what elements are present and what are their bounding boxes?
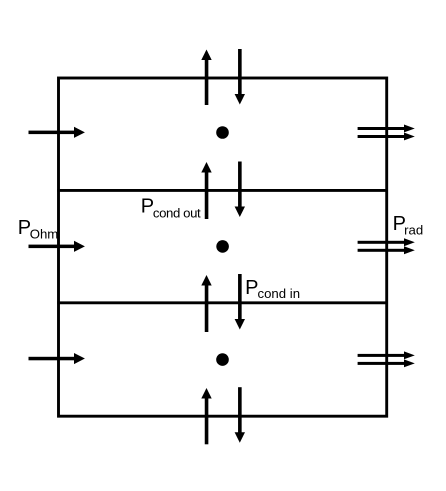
svg-text:cond in: cond in xyxy=(258,286,301,301)
node dot shell 1 xyxy=(216,126,229,139)
label P_cond out xyxy=(141,196,201,221)
arrow P_Ohm input row 2 xyxy=(29,241,85,252)
svg-text:cond out: cond out xyxy=(153,205,201,220)
divider line 1 (shell boundary upper) xyxy=(57,189,388,192)
divider line 2 (shell boundary lower) xyxy=(57,301,388,304)
node dot shell 3 xyxy=(216,353,229,366)
outer box (plasma volume) xyxy=(59,78,387,416)
arrow P_Ohm input row 3 xyxy=(29,353,85,364)
double arrow P_rad output row 1 xyxy=(358,125,415,141)
down arrow crossing top edge xyxy=(235,49,245,105)
label P_Ohm xyxy=(18,217,58,241)
svg-text:Ohm: Ohm xyxy=(30,226,59,241)
svg-text:rad: rad xyxy=(404,223,423,238)
svg-text:P: P xyxy=(245,277,258,299)
down arrow crossing divider 1 xyxy=(235,162,245,218)
label P_cond in xyxy=(245,277,300,301)
node dot shell 2 xyxy=(216,240,229,253)
up arrow crossing divider 2 xyxy=(201,275,211,332)
double arrow P_rad output row 2 xyxy=(358,238,415,254)
up arrow crossing top edge xyxy=(201,50,211,106)
label P_rad xyxy=(393,213,424,238)
up arrow crossing divider 1 (P_cond out) xyxy=(201,162,211,219)
down arrow crossing bottom edge xyxy=(235,387,245,443)
double arrow P_rad output row 3 xyxy=(358,351,415,367)
down arrow crossing divider 2 (P_cond in) xyxy=(235,274,245,330)
up arrow crossing bottom edge xyxy=(201,388,211,444)
arrow P_Ohm input row 1 xyxy=(29,127,85,138)
